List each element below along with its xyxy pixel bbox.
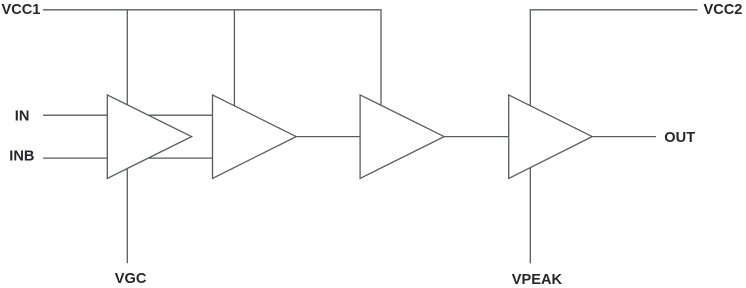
amplifier A1 (variable-gain stage, white-filled triangle) (107, 95, 191, 178)
svg-text:VGC: VGC (115, 271, 147, 287)
wire A3 output to A4 input (444, 136, 509, 138)
wire INB to amp A2 (passes behind amp A1) (43, 157, 213, 159)
amplifier A2 (213, 95, 297, 178)
svg-text:OUT: OUT (664, 130, 695, 146)
wire VPEAK control (down from amp A4) (529, 168, 531, 264)
wire A4 output to OUT (592, 136, 656, 138)
wire IN to amp A2 (passes behind amp A1) (43, 114, 213, 116)
wire VGC control (down from amp A1) (126, 169, 128, 264)
svg-text:VPEAK: VPEAK (512, 272, 563, 288)
amplifier A4 (output stage) (509, 95, 593, 178)
wire VCC1 drop to amp A1 (126, 10, 128, 105)
svg-text:VCC1: VCC1 (2, 2, 41, 18)
svg-text:VCC2: VCC2 (704, 2, 743, 18)
svg-text:IN: IN (15, 108, 30, 124)
wire A2 output to A3 input (296, 136, 360, 138)
wire VCC2 rail (top right) with drop to amp A4 (530, 10, 697, 106)
svg-text:INB: INB (9, 149, 34, 165)
amplifier A3 (360, 95, 444, 178)
wire VCC1 drop to amp A2 (233, 10, 235, 106)
wire VCC1 rail (top left horizontal) (43, 10, 381, 106)
